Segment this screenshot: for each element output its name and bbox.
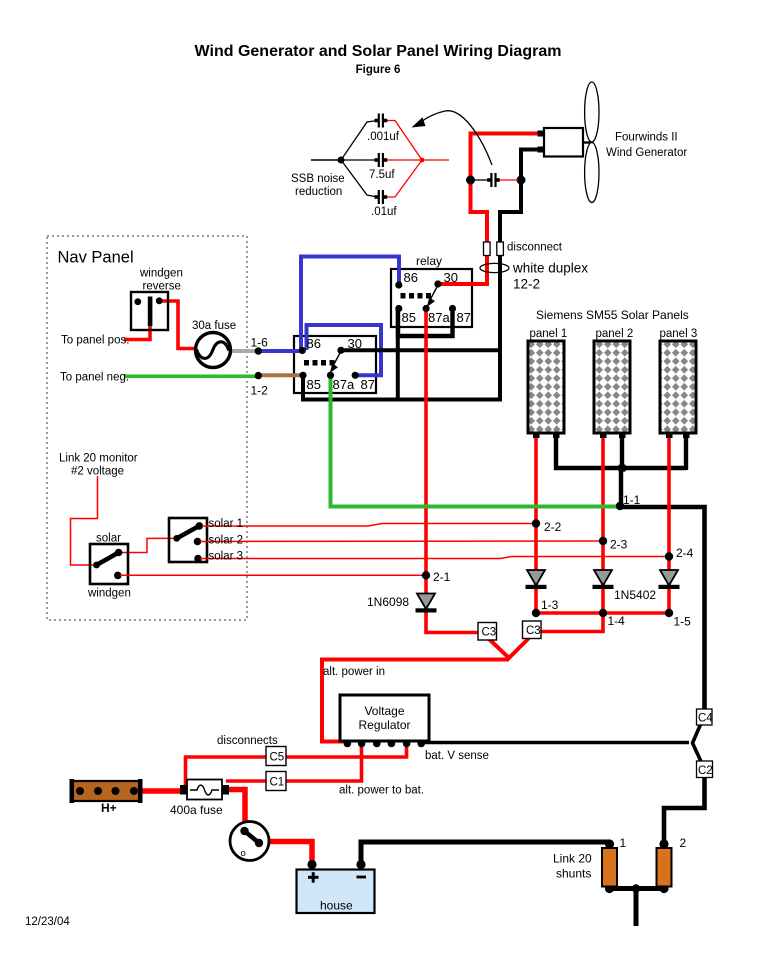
svg-text:disconnects: disconnects bbox=[217, 735, 278, 747]
svg-text:solar 1: solar 1 bbox=[209, 518, 244, 530]
svg-text:30a fuse: 30a fuse bbox=[192, 320, 236, 332]
node 1-4 bbox=[599, 609, 625, 628]
wire black: battery V sense from regulator to C4/C2 junction bbox=[421, 741, 689, 745]
svg-text:87a: 87a bbox=[333, 377, 355, 392]
solar panel 1 bbox=[528, 341, 564, 438]
svg-text:1-1: 1-1 bbox=[623, 493, 641, 507]
switch S3 solar select bbox=[169, 518, 207, 562]
wire black: windgen negative below disconnect down to 85-net bbox=[498, 254, 502, 402]
wire red: solar panel 3 positive drop to node 1-5 bbox=[667, 436, 671, 614]
relay U2 pin labels bbox=[307, 336, 375, 392]
Link 20 monitor label bbox=[59, 453, 138, 478]
svg-text:Figure 6: Figure 6 bbox=[356, 64, 401, 76]
title bbox=[195, 43, 562, 76]
junction shunt ground bbox=[632, 884, 640, 892]
svg-text:To panel pos.: To panel pos. bbox=[61, 335, 129, 347]
capacitor C-top .001uf plates bbox=[375, 114, 388, 128]
diode D4 1N6098 bbox=[416, 594, 437, 613]
relay U1 pin 85 terminal bbox=[395, 305, 402, 312]
node 1-2 bbox=[251, 372, 269, 398]
disconnect splice on black lead bbox=[497, 242, 504, 256]
svg-text:white duplex: white duplex bbox=[512, 261, 588, 276]
svg-text:2-1: 2-1 bbox=[433, 570, 451, 584]
wire red: regulator pin 5 to C5 line to fuse left tab bbox=[186, 743, 407, 788]
svg-text:12/23/04: 12/23/04 bbox=[25, 916, 70, 928]
wire black: wind generator negative lead bbox=[500, 150, 538, 245]
relay U2 pin 87a terminal bbox=[327, 372, 334, 379]
svg-text:house: house bbox=[320, 899, 353, 913]
svg-text:.001uf: .001uf bbox=[367, 131, 400, 143]
svg-text:Link 20 monitor: Link 20 monitor bbox=[59, 453, 138, 465]
node 1-1 bbox=[616, 493, 641, 510]
wire black: shunt bottom link bbox=[609, 886, 664, 891]
wire black: solar panel 3 negative drop bbox=[684, 436, 688, 470]
capacitor across windgen leads: junction on red bbox=[466, 176, 475, 185]
svg-text:Link 20: Link 20 bbox=[553, 852, 592, 866]
relay U1 pin 30 terminal bbox=[434, 280, 441, 287]
wire red thin: windgen sense to node 2-1 bbox=[120, 574, 426, 576]
svg-text:reverse: reverse bbox=[143, 281, 181, 293]
propeller blade lower bbox=[585, 143, 599, 203]
wire blue: relay U2 pin 87 loop to pin 86 bbox=[307, 325, 382, 375]
svg-text:7.5uf: 7.5uf bbox=[369, 169, 395, 181]
battery switch SW bbox=[230, 822, 269, 861]
solar panel 2 bbox=[594, 341, 630, 438]
wire red: regulator pin 2 to C1 line to 400a fuse bbox=[226, 743, 362, 781]
wire black: relay U2 pin 30 to windgen negative vertical bbox=[341, 348, 501, 352]
SSB capacitor value labels bbox=[367, 131, 400, 218]
wire green: relay U2 pin 87a to node 1-1 bbox=[331, 375, 620, 506]
white duplex label bbox=[512, 261, 588, 292]
svg-text:1N6098: 1N6098 bbox=[367, 595, 409, 609]
capacitor C-top .001uf leads bbox=[341, 121, 422, 161]
node 1-3 bbox=[532, 598, 559, 617]
svg-text:400a fuse: 400a fuse bbox=[170, 803, 223, 817]
node 1-5 bbox=[665, 609, 691, 629]
svg-text:1-3: 1-3 bbox=[541, 598, 559, 612]
svg-text:windgen: windgen bbox=[87, 588, 131, 600]
node SSB right junction bbox=[420, 158, 425, 163]
wire black: house battery negative to shunt 1 bbox=[361, 842, 609, 864]
wind generator body bbox=[538, 128, 591, 157]
regulator terminal pins bbox=[344, 740, 425, 748]
svg-text:30: 30 bbox=[348, 336, 362, 351]
wire red: below disconnect to relay U1 pin 30 bbox=[438, 254, 487, 284]
node 2-3 bbox=[599, 537, 628, 552]
svg-text:Nav Panel: Nav Panel bbox=[58, 249, 134, 267]
switch S1 windgen reverse bbox=[131, 292, 168, 330]
wire red: meter selector to source selector common bbox=[119, 538, 177, 552]
wire red: wind generator positive lead bbox=[471, 134, 539, 245]
disconnect splice on red lead bbox=[484, 242, 491, 256]
svg-text:12-2: 12-2 bbox=[513, 277, 540, 292]
svg-text:2-3: 2-3 bbox=[610, 538, 628, 552]
diode D3 (panel 3) bbox=[659, 570, 680, 589]
wire black: relay 85 net horizontal (U2 pin85 to windgen neg end) bbox=[303, 375, 501, 399]
wire black: C4 to junction diagonal bbox=[693, 725, 702, 762]
capacitor C-mid 7.5uf leads bbox=[341, 159, 449, 161]
windgen reverse label bbox=[139, 268, 183, 293]
svg-text:C3: C3 bbox=[482, 627, 497, 639]
house battery positive terminal bbox=[307, 860, 316, 869]
shunt 2 bbox=[657, 839, 672, 893]
wire red thin: solar 1 sense to node 2-2 bbox=[202, 524, 536, 527]
svg-text:.01uf: .01uf bbox=[371, 206, 397, 218]
wire black: relay U1 pin 85 to pin 87 U-link bbox=[398, 309, 453, 337]
wire red: fuse right tab to battery switch bbox=[229, 790, 245, 831]
shunt 1 bbox=[602, 839, 617, 893]
wire red: diode output bus 1-3 to 1-5 bbox=[536, 611, 669, 615]
Fourwinds II label bbox=[606, 132, 687, 160]
svg-text:Wind Generator: Wind Generator bbox=[606, 147, 687, 159]
wire red: C3 pair merge V to alt power in bbox=[489, 638, 529, 658]
svg-text:disconnect: disconnect bbox=[507, 242, 563, 254]
house battery bbox=[297, 870, 375, 914]
wire green: To panel neg. line bbox=[124, 374, 259, 378]
svg-text:To panel neg.: To panel neg. bbox=[60, 372, 129, 384]
relay U2 pin 87 terminal bbox=[352, 372, 359, 379]
wire red: bus bar to 400a fuse bbox=[138, 788, 182, 794]
svg-text:Fourwinds II: Fourwinds II bbox=[615, 132, 678, 144]
svg-text:C4: C4 bbox=[698, 713, 713, 725]
wire red thin: solar 2 sense to node 2-3 bbox=[200, 540, 603, 543]
wire red: solar panel 1 positive drop to node 1-3 bbox=[534, 436, 538, 614]
wire black: solar panel 1 negative drop bbox=[556, 436, 686, 468]
fuse F1 30a bbox=[196, 333, 231, 368]
house battery negative terminal bbox=[356, 860, 365, 869]
capacitor C-bot .01uf leads bbox=[341, 160, 422, 197]
svg-text:reduction: reduction bbox=[295, 186, 342, 198]
annotation arrow to SSB network bbox=[412, 111, 493, 165]
solar 1/2/3 labels bbox=[209, 518, 244, 563]
wire black: relay U1 pin 85 down to 85-net bbox=[396, 309, 400, 402]
connector C2 bbox=[697, 761, 713, 778]
wire brown: node 1-2 to relay U2 pin 85 bbox=[258, 373, 303, 377]
propeller blade upper bbox=[585, 82, 599, 142]
capacitor across windgen leads bbox=[474, 173, 518, 187]
svg-text:87a: 87a bbox=[428, 310, 450, 325]
white duplex cable loop bbox=[480, 263, 509, 272]
svg-text:Wind Generator and Solar Panel: Wind Generator and Solar Panel Wiring Di… bbox=[195, 43, 562, 60]
svg-text:o: o bbox=[241, 848, 246, 859]
wire red: To panel pos. to windgen reverse switch bbox=[124, 326, 150, 340]
wire red thin: solar 3 sense to node 2-4 bbox=[200, 557, 669, 559]
svg-text:87: 87 bbox=[361, 377, 375, 392]
node 1-6 bbox=[251, 336, 269, 355]
wire red: Link 20 monitor to meter selector common bbox=[71, 476, 98, 565]
diode D2 (panel 2) bbox=[593, 570, 614, 589]
svg-text:panel 1: panel 1 bbox=[530, 328, 568, 340]
svg-text:shunts: shunts bbox=[556, 867, 591, 881]
svg-text:panel 3: panel 3 bbox=[660, 328, 698, 340]
relay U1 pin 87 terminal bbox=[449, 305, 456, 312]
Link 20 shunts label bbox=[553, 852, 592, 881]
svg-text:85: 85 bbox=[307, 377, 321, 392]
relay U2 pin 30 terminal bbox=[337, 347, 344, 354]
Nav Panel dashed enclosure bbox=[47, 236, 247, 620]
relay U2 pin 86 terminal bbox=[299, 347, 306, 354]
node 2-4 bbox=[665, 546, 694, 561]
svg-text:1N5402: 1N5402 bbox=[614, 588, 656, 602]
relay U1 pin 87a terminal bbox=[423, 305, 430, 312]
svg-text:C5: C5 bbox=[270, 752, 285, 764]
svg-text:Voltage: Voltage bbox=[364, 704, 404, 718]
capacitor C-bot .01uf plates bbox=[375, 190, 388, 204]
connector C1 bbox=[266, 772, 286, 791]
svg-text:solar: solar bbox=[96, 533, 121, 545]
relay U1 pin labels bbox=[402, 270, 471, 325]
svg-text:C2: C2 bbox=[698, 765, 713, 777]
svg-text:1-4: 1-4 bbox=[608, 614, 626, 628]
wire black: node 1-1 to right trunk and down to C4 bbox=[619, 507, 705, 711]
svg-text:C1: C1 bbox=[270, 777, 285, 789]
svg-text:1-5: 1-5 bbox=[674, 615, 692, 629]
wire red: relay U1 pin 87a down through node 2-1 to diode D4 bbox=[424, 309, 428, 595]
node 2-2 bbox=[532, 519, 562, 534]
svg-text:alt. power in: alt. power in bbox=[323, 666, 385, 678]
svg-text:1-6: 1-6 bbox=[251, 336, 269, 350]
wire red: diode D4 cathode to C3 bbox=[426, 611, 479, 633]
svg-text:SSB noise: SSB noise bbox=[291, 173, 345, 185]
svg-text:Siemens SM55 Solar Panels: Siemens SM55 Solar Panels bbox=[536, 308, 689, 322]
svg-text:windgen: windgen bbox=[139, 268, 183, 280]
connector C3 (left) bbox=[478, 623, 497, 641]
connector C5 bbox=[266, 747, 286, 766]
SSB noise reduction network lead-in wire bbox=[311, 159, 341, 161]
svg-text:C3: C3 bbox=[526, 625, 541, 637]
capacitor across windgen leads: junction on black bbox=[517, 176, 526, 185]
svg-text:#2 voltage: #2 voltage bbox=[71, 466, 124, 478]
wire red: node 1-4 to C3 (right) bbox=[540, 613, 603, 632]
switch S2 meter select (solar/windgen) bbox=[90, 544, 128, 584]
svg-text:H+: H+ bbox=[101, 801, 117, 815]
relay U2 coil dashes bbox=[304, 360, 335, 366]
wire black: C2 down to shunt 2 bbox=[664, 775, 705, 845]
wire black: solar negative down to node 1-1 bbox=[619, 468, 623, 509]
svg-text:87: 87 bbox=[457, 310, 471, 325]
fuse F2 400a bbox=[180, 780, 229, 800]
wire blue: 30a fuse node 1-6 to relay U2 pin 86 bbox=[258, 349, 302, 353]
relay U2 switch arm bbox=[330, 351, 341, 373]
connector C3 (right) bbox=[523, 621, 542, 639]
svg-text:solar 2: solar 2 bbox=[209, 535, 244, 547]
svg-text:86: 86 bbox=[404, 270, 418, 285]
svg-text:solar 3: solar 3 bbox=[209, 551, 244, 563]
relay U2 (lower) body bbox=[294, 336, 376, 393]
node 2-1 bbox=[422, 570, 451, 584]
svg-text:1: 1 bbox=[620, 836, 627, 850]
wire black: solar panel 2 negative drop bbox=[620, 436, 624, 470]
svg-text:relay: relay bbox=[416, 254, 442, 268]
svg-text:2: 2 bbox=[680, 836, 687, 850]
voltage regulator U3 bbox=[340, 695, 429, 741]
wire blue: relay U1 pin 86 up-left-down to relay U2 pin 86 bbox=[301, 257, 399, 352]
solar panel 3 bbox=[660, 341, 696, 438]
relay U1 coil dashes bbox=[401, 293, 432, 299]
svg-text:Regulator: Regulator bbox=[358, 718, 410, 732]
relay U2 pin 85 terminal bbox=[299, 372, 306, 379]
svg-text:1-2: 1-2 bbox=[251, 384, 269, 398]
svg-text:2-2: 2-2 bbox=[544, 520, 562, 534]
svg-text:85: 85 bbox=[402, 310, 416, 325]
svg-text:30: 30 bbox=[444, 270, 458, 285]
svg-text:alt. power to bat.: alt. power to bat. bbox=[339, 785, 424, 797]
relay U1 switch arm bbox=[427, 285, 438, 307]
relay U1 (upper) body bbox=[391, 269, 472, 327]
wire red: solar panel 2 positive drop to node 1-4 bbox=[601, 436, 605, 614]
SSB noise reduction label bbox=[291, 173, 345, 198]
wire gray: 30a fuse to node 1-6 bbox=[229, 349, 258, 353]
wire black: shunt bottom ground stub bbox=[634, 889, 639, 927]
node SSB left junction bbox=[338, 157, 345, 164]
relay U1 pin 86 terminal bbox=[395, 281, 402, 288]
wire red: alt. power in line to regulator pin 1 bbox=[322, 660, 509, 742]
wire red: battery switch to house battery positive bbox=[262, 842, 312, 865]
svg-text:panel 2: panel 2 bbox=[596, 328, 634, 340]
bus bar H+ bbox=[70, 779, 143, 803]
connector C4 bbox=[697, 709, 714, 725]
svg-text:bat. V sense: bat. V sense bbox=[425, 750, 489, 762]
junction solar negative bus bbox=[619, 465, 626, 472]
diode D1 (panel 1) bbox=[526, 570, 547, 589]
capacitor C-mid 7.5uf plates bbox=[375, 153, 388, 167]
svg-text:86: 86 bbox=[307, 336, 321, 351]
svg-text:2-4: 2-4 bbox=[676, 546, 694, 560]
wire red: windgen reverse switch to 30a fuse bbox=[159, 301, 197, 349]
